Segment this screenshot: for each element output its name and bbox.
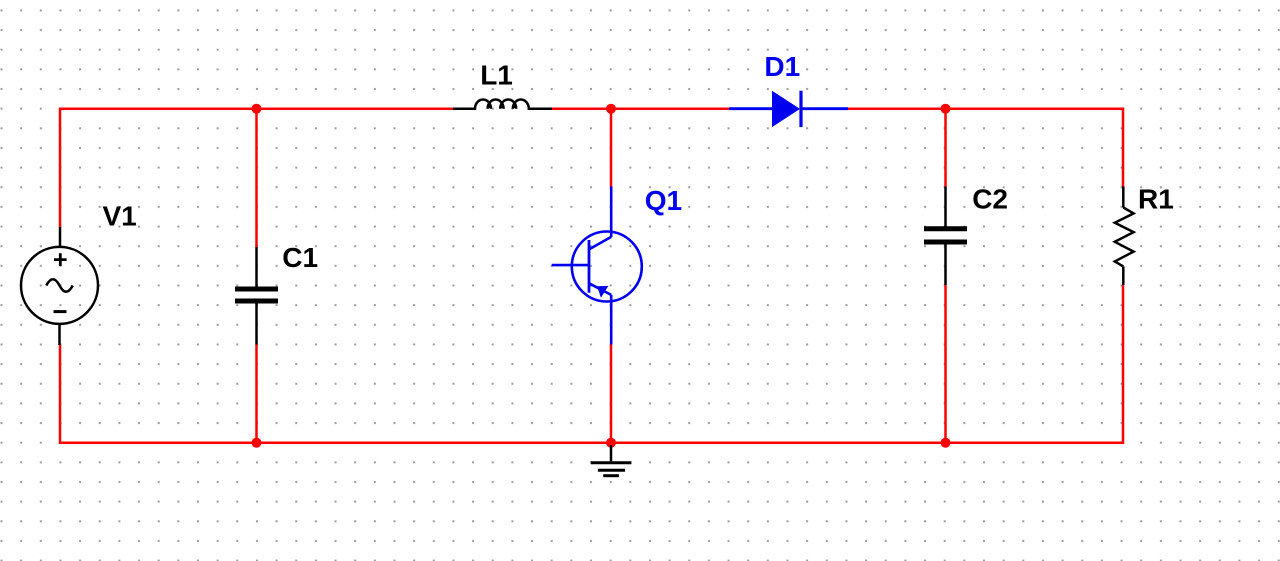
transistor Q1 xyxy=(552,187,642,345)
capacitor C2 xyxy=(924,187,967,286)
diode D1 xyxy=(729,91,848,127)
resistor R1 xyxy=(1115,187,1134,286)
node junction top C1 xyxy=(252,104,262,114)
svg-text:D1: D1 xyxy=(764,51,800,82)
svg-text:C2: C2 xyxy=(972,183,1008,214)
wire Q1 collector top xyxy=(610,109,613,187)
node junction bottom C2 xyxy=(941,438,951,448)
inductor L1 xyxy=(453,99,552,108)
svg-text:Q1: Q1 xyxy=(645,185,682,216)
wire top rail right segment xyxy=(848,109,1123,187)
capacitor C1 xyxy=(235,247,278,345)
wire C2 bottom xyxy=(944,285,947,443)
wire bottom rail xyxy=(60,285,1123,443)
wire C2 top xyxy=(944,109,947,187)
svg-text:R1: R1 xyxy=(1138,184,1174,215)
wire C1 bottom xyxy=(255,345,258,443)
wire top rail left segment xyxy=(60,109,453,227)
svg-text:V1: V1 xyxy=(103,201,137,232)
ground xyxy=(591,445,632,476)
node junction bottom C1 xyxy=(252,438,262,448)
node junction top Q1 xyxy=(606,104,616,114)
svg-text:L1: L1 xyxy=(480,60,513,91)
wire C1 top xyxy=(255,109,258,247)
svg-text:C1: C1 xyxy=(282,242,318,273)
node junction bottom ground xyxy=(606,438,616,448)
voltage source V1 xyxy=(21,227,98,345)
wire top rail middle segment xyxy=(552,107,729,110)
wire Q1 emitter bottom xyxy=(610,345,613,443)
node junction top C2 xyxy=(941,104,951,114)
